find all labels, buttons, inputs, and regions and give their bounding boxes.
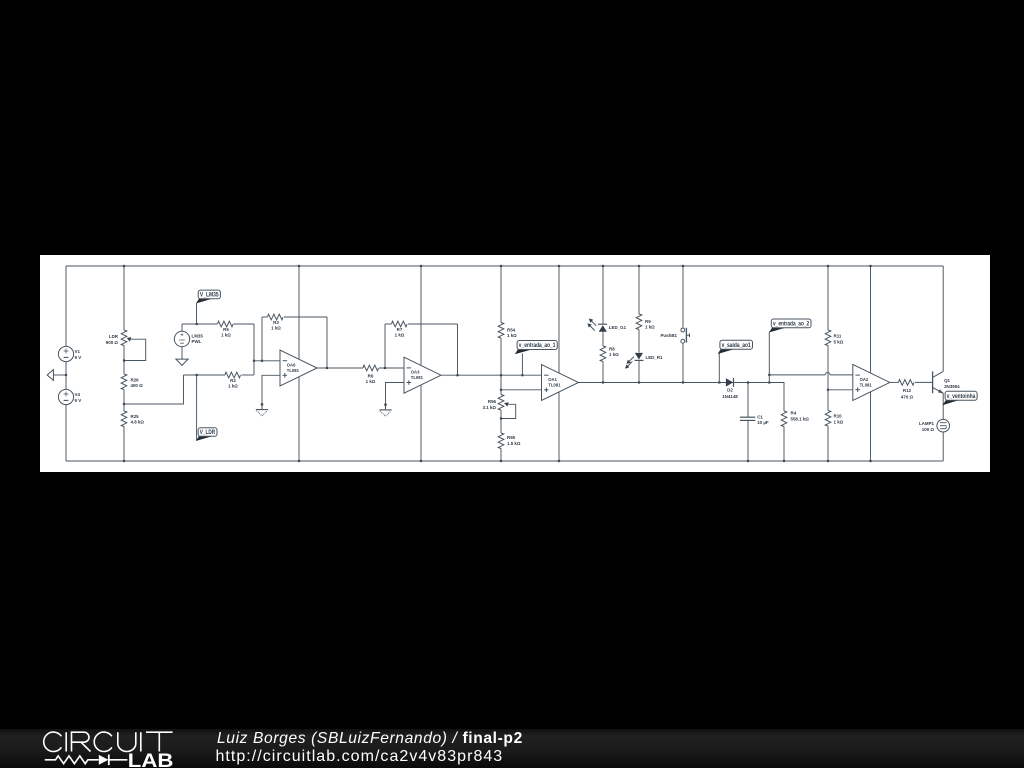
junction PushB1 top rail	[682, 265, 684, 267]
junction R56 loop	[500, 417, 502, 419]
wire LED_G1 column top	[602, 266, 604, 324]
wire R4 to bottom rail	[783, 427, 785, 462]
logo resistor squiggle	[45, 756, 99, 764]
junction x870 bottom	[869, 460, 871, 462]
wire R3 row right	[284, 316, 327, 318]
voltage source V1	[58, 346, 73, 361]
transistor Q1	[932, 371, 934, 393]
junction R26-R25	[123, 403, 125, 405]
wire LED_G1 to R8	[602, 332, 604, 346]
pushbutton PushB1	[681, 328, 685, 332]
wire PushB1 to output row	[682, 343, 684, 382]
wire top rail	[66, 265, 943, 267]
diode D2	[726, 378, 733, 386]
LED LED_R1	[635, 353, 643, 360]
flag V_LDR	[196, 375, 198, 440]
op-amp OA3	[404, 357, 441, 393]
ground below LM35	[176, 359, 188, 365]
junction x421 top	[420, 265, 422, 267]
wire R11 to R10	[827, 346, 829, 411]
wire bottom rail	[66, 460, 943, 462]
wire LDR to R26	[123, 346, 125, 375]
wire hop over R11 column	[825, 373, 830, 375]
junction x299 top	[298, 265, 300, 267]
resistor R55	[498, 433, 504, 449]
LED LED_G1	[598, 323, 607, 325]
junction plus row 2	[827, 389, 829, 391]
junction OA6 feedback	[326, 367, 328, 369]
wire R4 corner	[769, 383, 784, 412]
resistor R26	[121, 374, 127, 390]
wire R11 column top	[827, 266, 829, 330]
potentiometer R56	[498, 395, 504, 411]
logo letter I2	[140, 732, 142, 751]
op-amp OA2	[853, 364, 890, 400]
wire LM35 to ground	[181, 347, 183, 360]
junction x299 bottom	[298, 460, 300, 462]
wire LM35 top	[181, 324, 183, 331]
junction x559 bottom	[558, 460, 560, 462]
wire LDR column top	[123, 266, 125, 330]
wire R7 right leg	[457, 324, 459, 375]
voltage source V4	[58, 389, 73, 404]
junction PushB1 output row	[682, 381, 684, 383]
junction LDR column bottom rail	[123, 460, 125, 462]
footer bar	[0, 729, 1024, 768]
wire long vertical x559	[558, 266, 560, 461]
wire long vertical x421	[420, 266, 422, 461]
wire R56 to R55	[500, 410, 502, 433]
wire R54 to minus junction	[500, 338, 502, 395]
wire R12 to Q1 base	[915, 381, 933, 383]
wire R5 row right	[234, 323, 255, 325]
wire R56 wiper loop	[501, 404, 516, 418]
junction R7 output	[456, 374, 458, 376]
junction R4 bottom rail	[783, 460, 785, 462]
junction LED_R1 output row	[638, 381, 640, 383]
ground below OA3	[384, 404, 386, 406]
junction C1 branch	[747, 381, 749, 383]
wire R8 to output row	[602, 362, 604, 383]
wire R9 to LED_R1	[638, 330, 640, 353]
junction LDR column top rail	[123, 265, 125, 267]
wire x254 vertical	[253, 324, 255, 375]
flag V_LM35	[196, 303, 198, 324]
wire LDR wiper loop	[124, 339, 146, 360]
wire LAMP1 to bottom rail	[942, 432, 944, 461]
wire OA6 plus to ground	[262, 375, 280, 404]
svg-text:LAB: LAB	[128, 751, 174, 768]
resistor R3	[268, 314, 284, 320]
junction v_saida_ao1 stem	[718, 381, 720, 383]
wire LED_R1 to output row	[638, 360, 640, 382]
logo letter R	[72, 732, 91, 751]
junction R54 top rail	[500, 265, 502, 267]
schematic canvas	[40, 255, 990, 472]
logo diode	[99, 755, 109, 765]
wire R54 column top	[500, 266, 502, 323]
junction x421 bottom	[420, 460, 422, 462]
wire Q1 collector	[942, 266, 944, 371]
wire R7 row left	[385, 323, 392, 325]
logo letter I1	[65, 732, 67, 751]
wire R2 row left	[184, 374, 226, 376]
wire R10 to bottom rail	[827, 426, 829, 461]
resistor R10	[825, 411, 831, 427]
wire R3 right leg	[326, 317, 328, 368]
resistor R54	[498, 323, 504, 339]
wire OA1 plus row	[501, 389, 542, 391]
resistor R12	[899, 380, 915, 386]
resistor R8	[600, 346, 606, 362]
wire Q1 emitter	[942, 393, 944, 419]
wire PushB1 column top	[682, 266, 684, 328]
flag v_entrada_ao_2	[768, 332, 770, 383]
junction column plus row	[500, 389, 502, 391]
wire junction to R2 row	[124, 375, 184, 404]
wire R5 row left	[182, 323, 218, 325]
R56 wiper arrow	[504, 402, 509, 406]
wire minus row to hop	[769, 374, 825, 376]
wire OA6 output	[317, 367, 363, 369]
LDR wiper arrow	[127, 337, 132, 341]
wire C1 top lead	[747, 383, 749, 418]
wire R2 row right	[242, 374, 255, 376]
potentiometer LDR	[121, 330, 127, 346]
attribution line 1	[217, 730, 523, 748]
junction V1-V4	[65, 374, 67, 376]
flag v_saida_ao1	[718, 354, 720, 383]
LED_G1 arrows	[591, 321, 596, 326]
wire left rail	[65, 266, 67, 461]
junction V_LM35 stem	[196, 323, 198, 325]
wire R55 to bottom rail	[500, 449, 502, 462]
logo letter U	[118, 732, 136, 751]
resistor R11	[825, 330, 831, 346]
junction column minus row	[500, 374, 502, 376]
flag v_entrada_ao_1	[521, 353, 523, 375]
node arrow flag	[47, 370, 53, 381]
junction C1 bottom rail	[747, 460, 749, 462]
wire long vertical x299	[298, 266, 300, 461]
resistor R5	[218, 321, 233, 327]
junction LED_G1 top rail	[602, 265, 604, 267]
logo letter C1	[44, 732, 62, 751]
junction x559 top	[558, 265, 560, 267]
wire R3 left leg	[261, 317, 263, 361]
junction R55 bottom rail	[500, 460, 502, 462]
junction minus row 2	[768, 374, 770, 376]
junction minus row x254	[253, 360, 255, 362]
junction R11 top rail	[827, 265, 829, 267]
wire OA1 output row	[579, 382, 785, 384]
junction V_LDR stem	[196, 374, 198, 376]
capacitor C1	[740, 416, 755, 418]
wire R9 column top	[638, 266, 640, 314]
logo letter C2	[94, 732, 112, 751]
wire OA3 plus to ground	[386, 383, 405, 405]
resistor R9	[636, 314, 642, 330]
junction R10 bottom rail	[827, 460, 829, 462]
junction LDR loop	[123, 359, 125, 361]
junction v_entrada_ao_1 stem	[521, 374, 523, 376]
wire long vertical x870	[870, 266, 872, 461]
wire R25 to bottom rail	[123, 427, 125, 462]
junction R3 leg	[261, 360, 263, 362]
resistor R7	[392, 321, 408, 327]
wire OA2 plus row	[828, 389, 853, 391]
op-amp OA6	[280, 350, 317, 386]
junction R9 top rail	[638, 265, 640, 267]
junction v_entrada_ao_2 stem	[768, 381, 770, 383]
resistor R25	[121, 411, 127, 427]
wire R6 to OA3	[379, 367, 404, 369]
wire R3 row left	[262, 316, 268, 318]
LED_R1 arrows	[629, 357, 634, 362]
op-amp OA1	[542, 365, 579, 401]
junction R7 leg	[384, 367, 386, 369]
wire OA2 output	[890, 381, 899, 383]
resistor R4	[781, 411, 787, 427]
wire R7 row right	[408, 323, 458, 325]
wire C1 bottom lead	[747, 420, 749, 461]
attribution line 2	[216, 748, 504, 766]
wire hop to OA2 minus	[830, 374, 853, 376]
junction R8 output row	[602, 381, 604, 383]
junction x870 top	[869, 265, 871, 267]
lamp LAMP1	[937, 419, 950, 432]
wire R26 to junction	[123, 390, 125, 412]
flag v_ventoinha	[942, 400, 958, 405]
wire OA6 minus row	[254, 360, 280, 362]
ground below OA6	[261, 403, 263, 405]
logo letter T	[146, 732, 173, 751]
resistor R6	[363, 365, 379, 371]
wire R7 left leg	[384, 324, 386, 368]
wire OA3 output row	[441, 374, 542, 376]
resistor R2	[225, 372, 240, 378]
source LM35	[174, 331, 189, 346]
